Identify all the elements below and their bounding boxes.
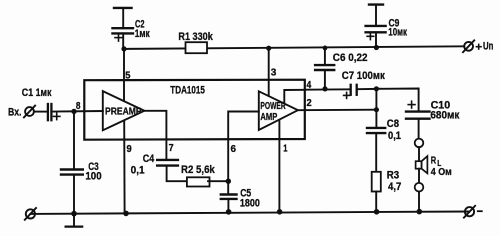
wire pin1 to ground rail [278, 120, 280, 213]
svg-text:POWER: POWER [260, 101, 286, 112]
svg-text:1800: 1800 [240, 198, 260, 210]
speaker terminal circle bottom [415, 183, 424, 192]
wire pin3 from rail into power amp [268, 48, 270, 95]
node junction C5/rail [226, 209, 232, 215]
wire pin2 output [298, 109, 377, 112]
node junction C9/rail [374, 45, 379, 50]
resistor R1 [186, 42, 208, 53]
svg-text:C1 1мк: C1 1мк [22, 87, 52, 99]
svg-text:C7 100мк: C7 100мк [342, 70, 385, 82]
resistor R2 [187, 177, 210, 186]
svg-text:C6 0,22: C6 0,22 [333, 52, 368, 64]
node junction speaker/rail [417, 209, 423, 215]
resistor R3 [372, 172, 381, 192]
capacitor C3 [73, 111, 75, 169]
svg-text:Вх.: Вх. [8, 107, 22, 119]
capacitor C5 [221, 193, 237, 195]
wire pin5 from rail into preamp [123, 49, 125, 101]
wire pin6 into power amp input [228, 112, 259, 195]
svg-text:1мк: 1мк [135, 28, 150, 40]
capacitor C2 [114, 7, 132, 9]
ground symbol [73, 214, 75, 226]
node junction pin1/rail [277, 209, 283, 215]
capacitor C4 [157, 159, 178, 161]
node junction C1/C3/pin8 [71, 109, 76, 114]
svg-text:C4: C4 [143, 153, 155, 165]
wire C8 to R3 [375, 133, 377, 172]
wire ground rail [30, 212, 469, 214]
wire top +supply rail [124, 46, 464, 49]
wire node down to pin2 wire [375, 89, 377, 110]
wire node to C10 [376, 89, 418, 112]
svg-text:100: 100 [85, 171, 101, 183]
op-amp U1 power amp triangle [259, 91, 298, 130]
terminal +Un [464, 42, 473, 51]
node junction C6/pin4 wire [322, 86, 327, 91]
node junction C2/pin5/rail [121, 46, 126, 51]
wire input to C1 [34, 111, 47, 113]
label minus [478, 210, 482, 212]
wire preamp output to pin7 [144, 111, 166, 160]
capacitor C1 [47, 104, 49, 120]
svg-text:4,7: 4,7 [388, 181, 401, 193]
svg-text:R1 330k: R1 330k [178, 31, 213, 43]
speaker RL symbol [416, 161, 422, 169]
op-amp U1 preamp triangle [103, 91, 145, 130]
svg-text:TDA1015: TDA1015 [170, 85, 205, 97]
svg-text:7: 7 [169, 142, 174, 154]
speaker terminal circle top [415, 139, 424, 148]
terminal ground left [26, 209, 35, 218]
wire C4 to R2 [167, 165, 188, 181]
svg-text:5: 5 [125, 69, 130, 81]
svg-text:R: R [431, 154, 437, 166]
wire pin9 to ground rail [123, 121, 125, 214]
node junction C3/rail [71, 211, 77, 217]
op-amp U1 TDA1015 body [84, 80, 304, 140]
svg-text:R2 5,6k: R2 5,6k [181, 164, 216, 176]
capacitor C10 [406, 110, 430, 112]
svg-text:0,1: 0,1 [388, 130, 401, 142]
capacitor C6 [324, 48, 326, 65]
svg-text:AMP: AMP [260, 112, 277, 123]
wire C10 to speaker [418, 119, 420, 139]
svg-text:3: 3 [271, 67, 277, 79]
svg-text:4 Ом: 4 Ом [431, 166, 452, 178]
capacitor C8 [375, 110, 377, 128]
svg-text:Un: Un [483, 40, 494, 52]
node junction C6/rail [323, 46, 328, 51]
node junction pin2/C8 [374, 107, 379, 112]
wire R2 to pin6 node [208, 180, 228, 182]
svg-text:0,1: 0,1 [131, 165, 145, 177]
svg-text:1: 1 [283, 142, 287, 154]
svg-text:R3: R3 [387, 169, 399, 181]
svg-text:6: 6 [231, 143, 237, 155]
capacitor C9 [369, 3, 383, 5]
node junction R2/pin6/C5 [226, 179, 231, 184]
svg-text:9: 9 [127, 143, 132, 155]
node junction R3/rail [374, 209, 380, 215]
wire C7 to node [357, 88, 376, 90]
wire speaker to circle [418, 169, 420, 183]
wire C1 to preamp input [52, 110, 103, 113]
wire pin4 feedback [284, 90, 305, 104]
node junction pin9/rail [123, 211, 129, 217]
svg-text:2: 2 [307, 97, 312, 109]
wire R3 to ground rail [375, 192, 377, 213]
wire to speaker [418, 147, 420, 161]
node junction pin3/rail [266, 46, 271, 51]
svg-text:8: 8 [76, 100, 81, 112]
node junction C7 out [374, 86, 379, 91]
svg-text:680мк: 680мк [430, 109, 459, 121]
svg-text:10мк: 10мк [388, 27, 407, 39]
terminal -Un [465, 207, 474, 216]
svg-text:C8: C8 [387, 118, 399, 130]
wire to ground rail [418, 192, 420, 212]
terminal input [25, 107, 34, 116]
svg-text:PREAMP: PREAMP [105, 107, 142, 118]
wire pin4 to C7 [305, 88, 350, 90]
